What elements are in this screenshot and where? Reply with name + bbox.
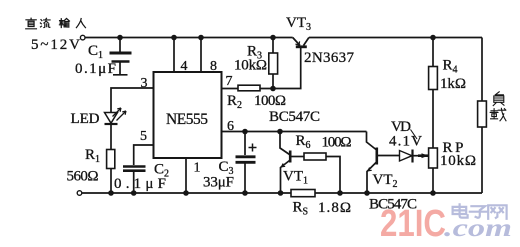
wire VT1 base to R6: [291, 156, 304, 158]
svg-text:NE555: NE555: [166, 111, 208, 128]
svg-text:BC547C: BC547C: [269, 109, 320, 125]
resistor R4: [429, 38, 466, 149]
junction node top rail at C1: [117, 35, 123, 41]
wire top rail right: [309, 37, 482, 39]
transistor VT2 BC547C: [367, 132, 418, 213]
wire pin 4 to rail: [173, 38, 175, 73]
terminal input +: [80, 35, 85, 40]
junction node bottom rail at pin1: [183, 190, 189, 196]
svg-text:2N3637: 2N3637: [304, 50, 355, 66]
svg-text:1kΩ: 1kΩ: [440, 76, 466, 92]
svg-text:10kΩ: 10kΩ: [234, 58, 267, 74]
junction node bottom rail at R6: [337, 190, 343, 196]
svg-text:0.1μF: 0.1μF: [75, 61, 116, 77]
resistor R6: [296, 133, 352, 160]
wire bottom rail left: [82, 192, 291, 194]
junction node bottom rail at C3: [242, 190, 248, 196]
resistor R3: [234, 37, 278, 89]
LED D1: [71, 108, 127, 127]
junction node top rail at pin4: [171, 35, 177, 41]
resistor R1: [67, 147, 115, 185]
svg-text:21IC: 21IC: [380, 203, 446, 245]
resistor RS (current sense): [291, 190, 351, 218]
svg-text:1.8Ω: 1.8Ω: [318, 200, 351, 216]
wire pin 6 line: [222, 131, 367, 133]
wire pin 7 to R2: [222, 88, 239, 90]
junction node pin6 at VT1: [277, 129, 283, 135]
label DC input 直流输入: [26, 18, 86, 29]
wire pin 1 to bottom rail: [185, 158, 187, 193]
load 负载: [478, 38, 506, 194]
wire LED to R1: [110, 124, 112, 149]
junction node bottom rail at RP: [430, 190, 436, 196]
junction node bottom rail at R1: [108, 190, 114, 196]
capacitor C1: [75, 38, 132, 78]
junction node top rail at pin8: [198, 35, 204, 41]
svg-text:100Ω: 100Ω: [322, 135, 352, 151]
junction node R2-R3: [270, 86, 276, 92]
junction node top rail at R3: [270, 35, 276, 41]
wire R6 to bottom rail: [326, 157, 340, 194]
junction node bottom rail at C2: [131, 190, 137, 196]
terminal input -: [77, 191, 82, 196]
svg-text:.com: .com: [444, 215, 512, 242]
junction node bottom rail at VT2 emitter: [364, 190, 370, 196]
IC U1 NE555: [154, 72, 222, 158]
wire R1 to bottom rail: [110, 169, 112, 194]
svg-text:1: 1: [194, 161, 201, 176]
transistor VT1 BC547C: [269, 109, 320, 193]
svg-text:33μF: 33μF: [203, 175, 234, 191]
wire top rail left: [85, 37, 293, 39]
capacitor C2: [114, 162, 169, 193]
svg-text:100Ω: 100Ω: [254, 93, 286, 109]
svg-text:5: 5: [140, 129, 147, 144]
potentiometer RP: [429, 140, 476, 193]
svg-text:7: 7: [226, 74, 233, 89]
svg-text:LED: LED: [71, 111, 100, 127]
transistor VT3 2N3637: [286, 15, 355, 66]
diode VD (zener 4.1V): [389, 119, 429, 163]
svg-text:10kΩ: 10kΩ: [440, 153, 476, 169]
wire R2 to VT3 base: [260, 48, 301, 89]
wire C2 to bottom rail: [133, 172, 135, 193]
wire pin 8 to rail: [200, 38, 202, 73]
wire bottom rail right: [315, 192, 482, 194]
wire pin 5 to C2: [134, 145, 154, 165]
svg-text:4.1V: 4.1V: [389, 134, 422, 150]
junction node pin6 at C3: [242, 129, 248, 135]
junction node bottom rail at VT1 emitter: [278, 190, 284, 196]
wire pin 3 to LED: [111, 88, 154, 112]
resistor R2: [227, 85, 286, 111]
svg-text:5~12V: 5~12V: [31, 37, 80, 53]
junction node top rail at R4: [430, 35, 436, 41]
wire VT2 base to VD: [378, 155, 399, 157]
watermark 电子网: [453, 204, 507, 219]
capacitor C3: [203, 132, 257, 194]
svg-text:560Ω: 560Ω: [67, 169, 99, 185]
